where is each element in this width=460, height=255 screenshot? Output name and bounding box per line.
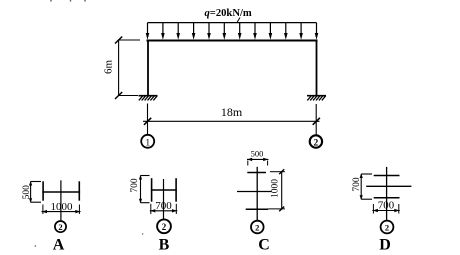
- svg-text:700: 700: [378, 200, 394, 212]
- load line: [147, 22, 316, 24]
- svg-text:1000: 1000: [51, 201, 74, 213]
- svg-text:6m: 6m: [103, 60, 115, 75]
- option D section glyph: [366, 167, 411, 220]
- svg-text:1000: 1000: [270, 179, 280, 198]
- svg-text:2: 2: [255, 223, 259, 233]
- option C node 2: [251, 221, 264, 234]
- right column: [316, 41, 318, 96]
- load arrows: [146, 23, 319, 40]
- svg-text:q=20kN/m: q=20kN/m: [205, 8, 252, 19]
- svg-text:500: 500: [22, 185, 32, 200]
- left column: [147, 41, 149, 96]
- stray speck top 3: [84, 0, 85, 2]
- option B dimension 700 horizontal: [150, 200, 178, 214]
- stray speck left of A: [35, 245, 37, 247]
- node 1: [141, 135, 154, 149]
- svg-text:A: A: [53, 237, 65, 254]
- svg-text:2: 2: [385, 223, 389, 233]
- beam: [147, 40, 318, 42]
- option A section glyph: [42, 180, 80, 220]
- option B node 2: [157, 219, 171, 233]
- svg-text:500: 500: [251, 149, 264, 159]
- svg-text:B: B: [159, 237, 170, 254]
- option C dimension 1000: [268, 169, 285, 211]
- stray speck right of B: [142, 233, 143, 234]
- option A dimension 1000: [42, 201, 81, 214]
- stray speck top 1: [50, 0, 51, 2]
- option A dimension 500: [22, 181, 41, 203]
- svg-text:700: 700: [130, 178, 140, 193]
- svg-text:700: 700: [352, 177, 362, 192]
- option C dimension 500: [247, 149, 268, 166]
- left fixed support: [139, 96, 158, 101]
- svg-text:700: 700: [155, 200, 172, 212]
- dimension 6m: [103, 37, 141, 100]
- svg-text:2: 2: [58, 222, 62, 232]
- option D dimension 700 horizontal: [372, 200, 399, 214]
- right fixed support: [307, 96, 326, 101]
- stray speck top 2: [70, 0, 71, 2]
- load label q=20kN/m: [205, 8, 252, 23]
- option C section glyph: [237, 167, 272, 221]
- option D node 2: [381, 221, 394, 234]
- option D dimension 700: [352, 174, 372, 200]
- svg-text:D: D: [379, 237, 391, 254]
- svg-text:2: 2: [314, 139, 319, 149]
- node 2: [310, 135, 322, 148]
- dimension 18m: [143, 104, 320, 135]
- svg-text:1: 1: [145, 138, 150, 148]
- option B dimension 700: [130, 175, 150, 203]
- option A node 2: [55, 221, 66, 232]
- svg-text:2: 2: [162, 222, 167, 232]
- svg-text:18m: 18m: [221, 105, 243, 119]
- option B section glyph: [151, 178, 177, 219]
- svg-text:C: C: [258, 237, 270, 254]
